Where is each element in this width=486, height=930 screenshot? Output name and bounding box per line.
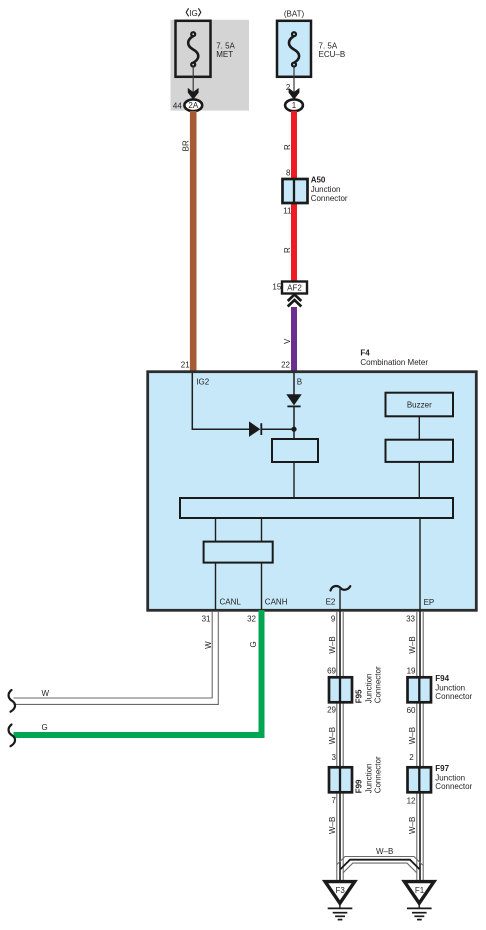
- svg-text:W: W: [42, 689, 50, 698]
- svg-text:15: 15: [272, 283, 281, 292]
- wire V violet: [283, 307, 294, 373]
- label (BAT): [284, 9, 305, 18]
- wires bus to U3: [216, 518, 262, 542]
- bus bar: [180, 498, 453, 518]
- connector oval 1: [285, 99, 303, 111]
- wire G (CANH) green: [14, 610, 262, 735]
- internal wire from IG2: [192, 373, 249, 429]
- wire U2 to bus: [418, 462, 420, 498]
- pin 22: [281, 361, 290, 370]
- wire W-B (E2 to F3): [328, 611, 343, 881]
- svg-text:W–B: W–B: [328, 636, 337, 653]
- arrowhead into 1: [289, 88, 300, 100]
- diode D1 (down): [286, 394, 301, 406]
- svg-text:F95: F95: [354, 689, 363, 703]
- wire W (CANL) white: [14, 611, 219, 704]
- pin 21: [181, 361, 190, 370]
- wire CANH inside: [262, 563, 288, 610]
- svg-text:7. 5A: 7. 5A: [319, 41, 338, 50]
- svg-text:1: 1: [292, 101, 297, 110]
- internal block U3: [204, 542, 273, 563]
- svg-text:Junction: Junction: [364, 674, 373, 704]
- svg-text:12: 12: [407, 796, 416, 805]
- wire U1 to bus: [293, 462, 295, 498]
- svg-text:19: 19: [407, 666, 416, 675]
- ground F3: [325, 882, 355, 920]
- pin 8: [286, 169, 291, 178]
- svg-text:R: R: [283, 247, 292, 253]
- svg-text:33: 33: [406, 614, 415, 623]
- junction connector F97: [408, 764, 473, 792]
- svg-text:31: 31: [202, 614, 211, 623]
- svg-text:Junction: Junction: [311, 185, 341, 194]
- svg-text:2: 2: [409, 753, 414, 762]
- wire fuse to connector 2A: [192, 67, 194, 94]
- fuse element (BAT): [289, 32, 299, 66]
- break symbol W: [9, 690, 16, 712]
- svg-text:Junction: Junction: [364, 764, 373, 794]
- pin 60: [407, 706, 416, 715]
- wire W-B crosslink: [337, 847, 423, 873]
- svg-text:W–B: W–B: [408, 817, 417, 834]
- break symbol G: [9, 725, 16, 747]
- svg-text:Combination Meter: Combination Meter: [360, 358, 428, 367]
- pin 11: [283, 207, 292, 216]
- svg-text:7. 5A: 7. 5A: [216, 41, 235, 50]
- pin 15: [272, 283, 281, 292]
- label F4 Combination Meter: [360, 348, 428, 367]
- internal block U1: [272, 439, 318, 462]
- gray background panel (IG fuse area): [171, 20, 250, 111]
- pin 7: [332, 796, 337, 805]
- svg-text:F97: F97: [435, 764, 449, 773]
- pin label B: [297, 377, 302, 386]
- svg-text:Connector: Connector: [311, 194, 348, 203]
- svg-text:IG: IG: [189, 9, 197, 18]
- svg-text:3: 3: [332, 753, 337, 762]
- pin 29: [327, 706, 336, 715]
- wire R red upper: [283, 111, 294, 281]
- fuse 7.5A MET box: [176, 21, 236, 77]
- svg-text:21: 21: [181, 361, 190, 370]
- svg-text:E2: E2: [326, 597, 336, 606]
- ground F1: [404, 882, 434, 920]
- pin 69: [327, 666, 336, 675]
- svg-text:B: B: [297, 377, 302, 386]
- buzzer box: [386, 393, 454, 417]
- pin 44: [173, 101, 182, 110]
- svg-text:W–B: W–B: [328, 817, 337, 834]
- pin 32: [247, 614, 256, 623]
- svg-text:22: 22: [281, 361, 290, 370]
- connector AF2: [282, 282, 307, 294]
- svg-text:32: 32: [247, 614, 256, 623]
- svg-text:Connector: Connector: [373, 666, 382, 703]
- pin 2: [286, 83, 291, 92]
- combination meter box F4: [148, 372, 477, 611]
- junction connector F99: [329, 756, 382, 793]
- svg-text:W–B: W–B: [328, 727, 337, 744]
- pin 12: [407, 796, 416, 805]
- svg-text:Connector: Connector: [435, 692, 472, 701]
- wire buzzer to U2: [418, 416, 420, 439]
- fuse 7.5A ECU-B box: [277, 21, 345, 77]
- svg-text:ECU–B: ECU–B: [319, 50, 346, 59]
- pin label IG2: [196, 377, 209, 386]
- svg-text:11: 11: [283, 207, 292, 216]
- wire R red lower label: [283, 247, 292, 253]
- pin 31: [202, 614, 211, 623]
- svg-text:60: 60: [407, 706, 416, 715]
- svg-text:AF2: AF2: [287, 284, 302, 293]
- wire W-B (EP to F1): [408, 611, 423, 881]
- svg-text:MET: MET: [216, 50, 233, 59]
- junction connector F95: [329, 666, 382, 703]
- internal wire from B: [293, 373, 295, 395]
- node junction dot: [291, 427, 296, 432]
- svg-text:G: G: [42, 723, 48, 732]
- label (IG): [186, 8, 201, 18]
- internal wires to node: [261, 406, 294, 439]
- shield chevrons: [288, 295, 302, 307]
- svg-text:7: 7: [332, 796, 337, 805]
- svg-text:R: R: [283, 144, 292, 150]
- pin 2: [409, 753, 414, 762]
- svg-text:F94: F94: [435, 674, 449, 683]
- diode D2 (right): [249, 421, 261, 437]
- svg-text:W–B: W–B: [408, 636, 417, 653]
- svg-text:BR: BR: [182, 140, 191, 151]
- svg-text:W–B: W–B: [408, 727, 417, 744]
- svg-text:W–B: W–B: [376, 847, 393, 856]
- svg-text:W: W: [204, 641, 213, 649]
- svg-text:44: 44: [173, 101, 182, 110]
- svg-text:F4: F4: [360, 348, 370, 357]
- svg-text:G: G: [249, 641, 258, 647]
- pin 9: [331, 614, 336, 623]
- fuse element (IG): [188, 32, 198, 66]
- internal block U2: [386, 440, 454, 462]
- wire BR brown: [182, 111, 194, 373]
- EP internal wire: [420, 518, 434, 610]
- svg-text:29: 29: [327, 706, 336, 715]
- arrowhead into 2A: [188, 88, 199, 100]
- wire CANL inside: [216, 563, 242, 610]
- svg-text:Connector: Connector: [373, 756, 382, 793]
- svg-text:CANL: CANL: [220, 597, 242, 606]
- svg-text:CANH: CANH: [265, 597, 288, 606]
- svg-text:2A: 2A: [188, 101, 198, 110]
- junction connector A50: [283, 176, 348, 203]
- svg-text:F3: F3: [336, 886, 346, 895]
- wire fuse to connector 1: [293, 67, 295, 94]
- svg-text:Buzzer: Buzzer: [407, 400, 432, 409]
- svg-text:Connector: Connector: [435, 782, 472, 791]
- pin 19: [407, 666, 416, 675]
- svg-text:69: 69: [327, 666, 336, 675]
- svg-text:EP: EP: [424, 598, 435, 607]
- svg-text:Junction: Junction: [435, 684, 465, 693]
- pin 33: [406, 614, 415, 623]
- svg-text:V: V: [283, 338, 292, 344]
- svg-text:F99: F99: [354, 779, 363, 793]
- svg-text:9: 9: [331, 614, 336, 623]
- junction connector F94: [408, 674, 473, 702]
- svg-text:F1: F1: [415, 886, 425, 895]
- connector oval 2A: [184, 99, 202, 111]
- svg-text:IG2: IG2: [196, 377, 209, 386]
- svg-text:(BAT): (BAT): [284, 9, 305, 18]
- E2 internal stub with coil mark: [326, 586, 351, 610]
- svg-text:A50: A50: [311, 176, 326, 185]
- pin 3: [332, 753, 337, 762]
- svg-text:8: 8: [286, 169, 291, 178]
